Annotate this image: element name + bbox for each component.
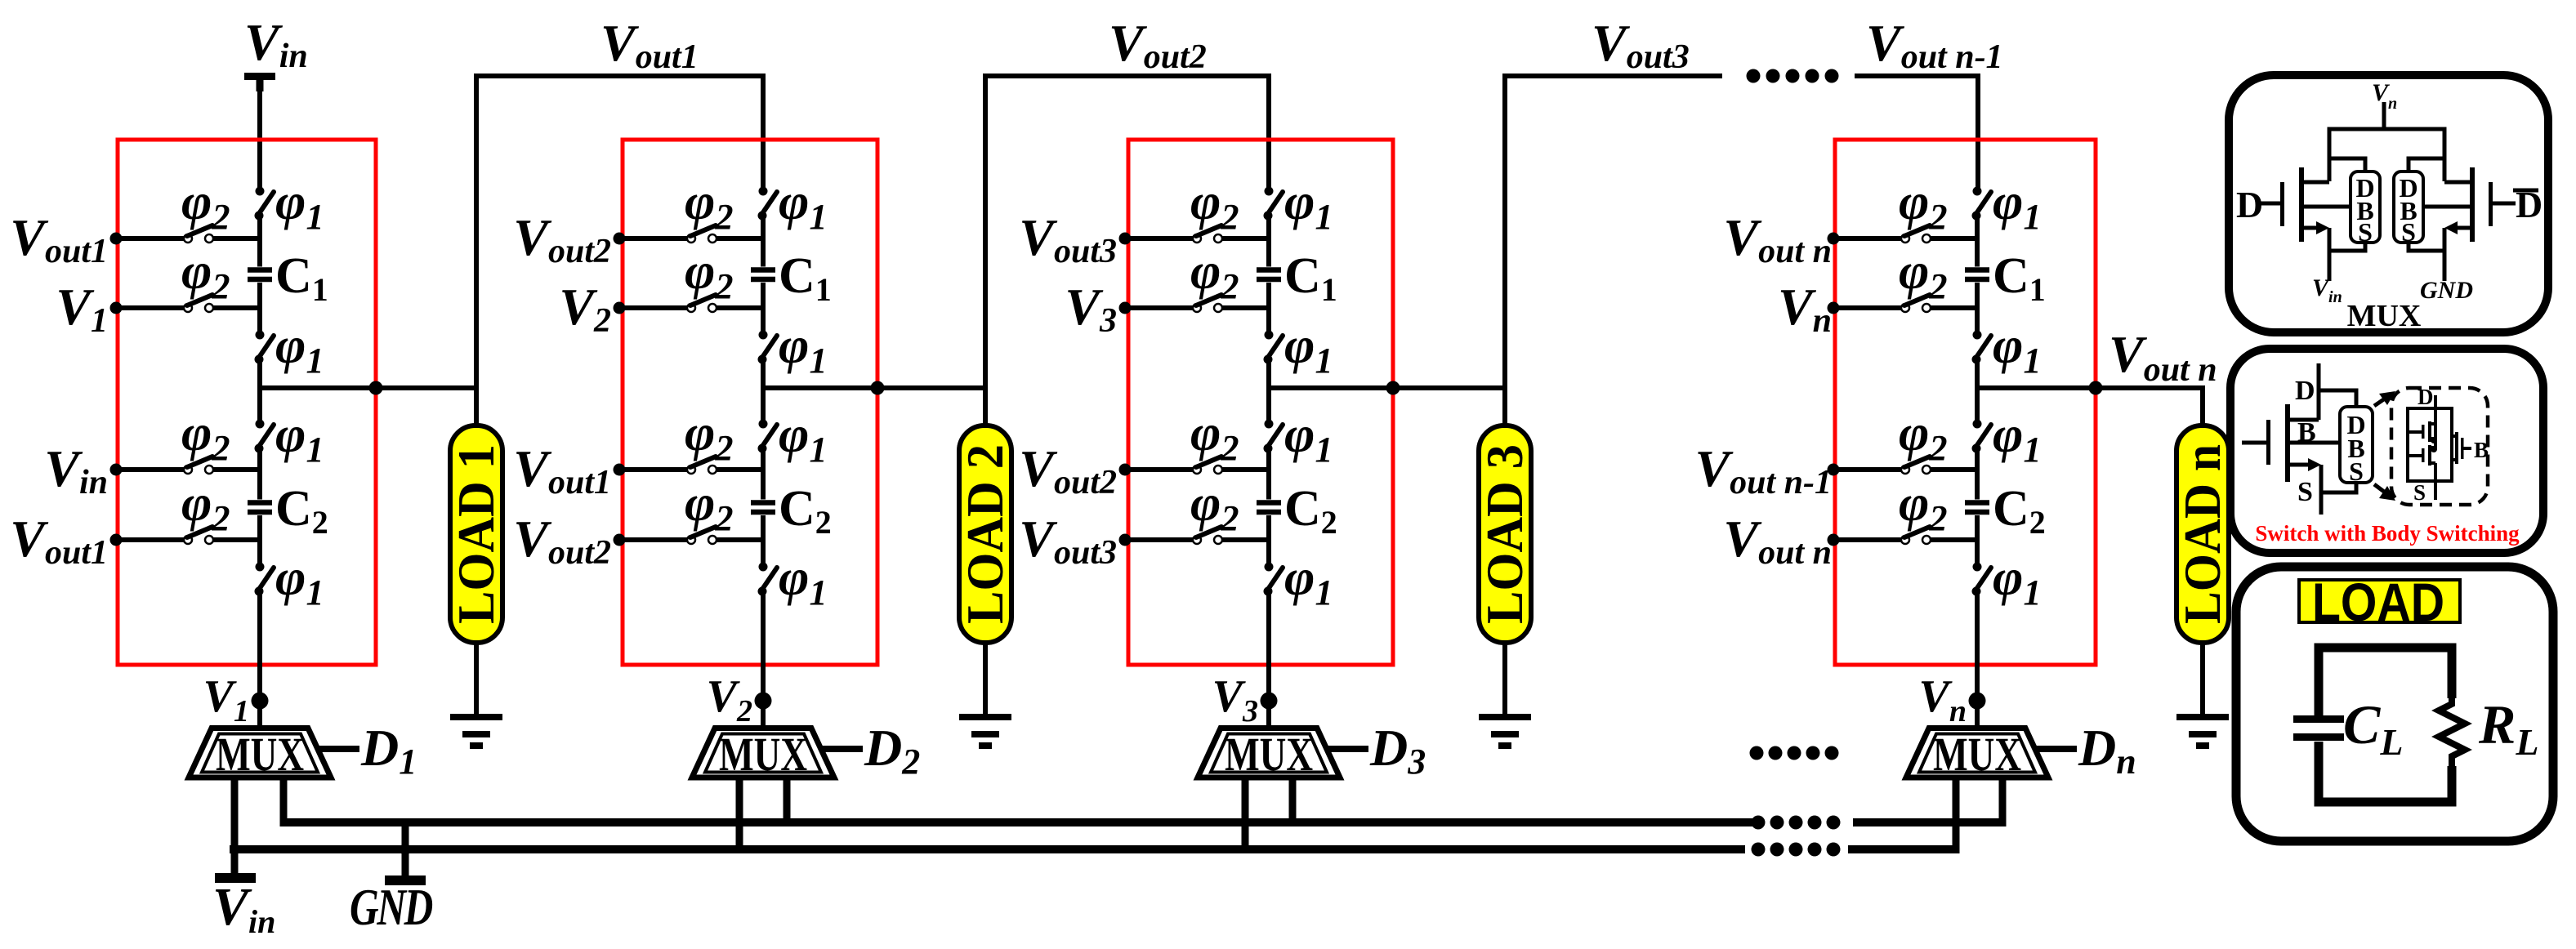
wire stage n main line below C2	[1975, 515, 1980, 567]
capacitor C2 stage 2 value label	[779, 481, 832, 541]
switch phi2 row2 stage 3 label	[1190, 242, 1239, 306]
svg-text:MUX: MUX	[719, 728, 807, 781]
svg-text:B: B	[2297, 417, 2316, 448]
switch phi1 third stage 1 label	[275, 405, 324, 470]
wire stage 3 mid node to lower switch	[1266, 388, 1271, 424]
wire stage n output node	[1977, 385, 2203, 390]
switch phi2 row3 stage 3 label	[1190, 403, 1239, 468]
switch phi2 row2 stage 1 label	[181, 242, 230, 306]
switch phi1 third stage n	[1972, 420, 1992, 453]
wire stage 2 main line to C2	[761, 448, 766, 500]
red boundary box stage n	[1835, 140, 2096, 665]
switch phi2 row3 stage 1 label	[181, 403, 230, 468]
switch phi1 bottom stage n label	[1993, 548, 2041, 613]
junction dot stage 1 output	[369, 381, 383, 395]
input label row1 stage n	[1723, 208, 1832, 270]
stage 1 MUX right leg to upper bus	[280, 779, 288, 826]
svg-text:Switch with Body Switching: Switch with Body Switching	[2255, 521, 2520, 546]
svg-text:LOAD 3: LOAD 3	[1476, 444, 1534, 624]
label GND (mux right source)	[2420, 277, 2473, 304]
switch phi1 second stage n label	[1993, 316, 2041, 381]
wire stage 1 main line to C2	[257, 448, 262, 500]
select input wire D3	[1326, 746, 1368, 752]
switch phi1 third stage n label	[1993, 405, 2041, 470]
ground under LOAD n	[2176, 643, 2229, 749]
Vin supply terminal bar	[244, 73, 275, 91]
wire stage 1 main line to mid node	[257, 359, 262, 388]
wire stage 1 main line below C1	[257, 283, 262, 335]
stage 2 MUX left leg	[736, 779, 743, 853]
net label Vout n	[2109, 325, 2217, 389]
svg-text:MUX: MUX	[1225, 728, 1313, 781]
node dot row1 stage n	[1828, 233, 1840, 245]
switch phi2 row4 stage 2 label	[685, 474, 733, 538]
switch phi2 row2 stage 2 label	[685, 242, 733, 306]
ellipsis dots top wire	[1747, 69, 1839, 83]
DBS box Q1	[2351, 172, 2380, 247]
input label row3 stage n	[1694, 439, 1832, 501]
wire stage 2 main line below C2	[761, 515, 766, 567]
wire stage 3 output node	[1269, 385, 1505, 390]
switch phi2 row3 stage 3	[1125, 457, 1269, 474]
load loop wires	[2319, 648, 2452, 802]
input label row2 stage 1	[56, 278, 108, 340]
node dot row4 stage 2	[614, 534, 626, 546]
ground under LOAD 1	[450, 643, 502, 749]
input label row4 stage 1	[10, 510, 108, 572]
svg-text:MUX: MUX	[1933, 728, 2021, 781]
svg-text:D: D	[2418, 385, 2434, 409]
mux top rail	[2329, 129, 2444, 181]
node dot row2 stage n	[1828, 302, 1840, 314]
net label Vout3	[1592, 14, 1690, 76]
switch phi2 row1 stage 3	[1125, 225, 1269, 243]
switch phi1 second stage 1	[255, 331, 275, 364]
Vin terminal bar bottom	[215, 873, 256, 883]
node label V1	[203, 671, 249, 728]
switch detail box outline	[2230, 349, 2543, 553]
DBS box Q2	[2394, 172, 2423, 247]
switch phi1 second stage 1 label	[275, 316, 324, 381]
GND drop wire	[402, 822, 409, 878]
svg-text:GND: GND	[2420, 277, 2473, 304]
stage 1 MUX left leg to Vin bar	[231, 779, 239, 875]
multiplexer MUX stage 1	[189, 728, 331, 781]
node V3 dot	[1261, 693, 1278, 710]
net label Vout2	[1109, 14, 1207, 76]
Vin label (stage 1 top)	[244, 13, 308, 75]
dashed detail box	[2391, 388, 2488, 505]
label D (Q3 drain)	[2295, 376, 2315, 406]
switch phi2 row2 stage n label	[1899, 242, 1947, 306]
node dot row2 stage 2	[614, 302, 626, 314]
stage n MUX right leg	[1999, 779, 2007, 826]
node dot row2 stage 1	[110, 302, 123, 314]
wire stage 1 output node	[260, 385, 476, 390]
switch phi1 top stage 1	[255, 187, 275, 221]
GND label	[350, 878, 432, 936]
ground under LOAD 3	[1479, 643, 1531, 749]
capacitor C1 stage 2	[751, 267, 775, 282]
capacitor C1 stage 1 value label	[275, 248, 328, 308]
wire stage 3 main line below C1	[1266, 283, 1271, 335]
Vin bottom label	[212, 877, 275, 940]
load LOAD 2	[956, 425, 1014, 643]
stage 2 MUX right leg	[784, 779, 791, 826]
label Vin (mux left source)	[2312, 274, 2342, 306]
arrow to detail top	[2374, 391, 2395, 406]
input label row4 stage 3	[1019, 510, 1117, 572]
GND terminal bar	[385, 875, 426, 885]
svg-text:LOAD 2: LOAD 2	[956, 444, 1014, 624]
net label Vout1	[600, 14, 699, 76]
wire stage 2 main line upper	[761, 216, 766, 267]
capacitor C1 stage 1	[248, 267, 272, 282]
ellipsis dots MUX level	[1750, 746, 1839, 760]
body-switch pair detail	[2408, 385, 2489, 505]
node dot row3 stage n	[1828, 464, 1840, 476]
switch phi1 second stage 3 label	[1284, 316, 1333, 381]
node V2 dot	[755, 693, 772, 710]
switch phi1 second stage 2 label	[779, 316, 827, 381]
node dot row3 stage 2	[614, 464, 626, 476]
svg-text:S: S	[2401, 217, 2416, 247]
svg-text:S: S	[2297, 477, 2313, 507]
switch phi1 top stage 2 label	[779, 172, 827, 237]
ellipsis dots lower bus	[1752, 843, 1841, 857]
switch phi2 row4 stage 1 label	[181, 474, 230, 538]
svg-text:LOAD 1: LOAD 1	[447, 444, 505, 624]
wire stage 3 main line to C2	[1266, 448, 1271, 500]
switch phi1 bottom stage 3 label	[1284, 548, 1333, 613]
node dot row4 stage 1	[110, 534, 123, 546]
switch phi1 top stage 3 label	[1284, 172, 1333, 237]
switch phi2 row4 stage 2	[619, 527, 763, 544]
capacitor C2 stage n value label	[1993, 481, 2046, 541]
caption Switch with Body Switching	[2255, 521, 2520, 546]
label Vn (mux supply)	[2372, 79, 2397, 113]
select input wire D2	[820, 746, 863, 752]
svg-text:MUX: MUX	[2347, 299, 2422, 333]
wire stage 1 main line to V1 node	[257, 591, 262, 727]
node dot row1 stage 2	[614, 233, 626, 245]
switch phi1 bottom stage n	[1972, 563, 1992, 596]
input label row1 stage 2	[513, 208, 611, 270]
junction dot stage 2 output	[871, 381, 885, 395]
input label row3 stage 1	[44, 439, 108, 501]
switch phi1 bottom stage 2	[758, 563, 778, 596]
select label Dn	[2078, 719, 2136, 782]
junction dot stage 3 output	[1386, 381, 1400, 395]
multiplexer MUX stage 3	[1198, 728, 1340, 781]
node label V3	[1212, 671, 1258, 728]
capacitor CL	[2293, 715, 2344, 741]
wire load1 drop	[474, 388, 479, 425]
wire stage 1 main line upper	[257, 216, 262, 267]
capacitor C2 stage 1	[248, 500, 272, 515]
node dot row3 stage 3	[1119, 464, 1132, 476]
switch phi2 row4 stage 3	[1125, 527, 1269, 544]
MUX detail box outline	[2229, 75, 2548, 332]
wire Vout3 (load3 going right)	[1505, 76, 1722, 425]
stage 3 MUX left leg	[1242, 779, 1249, 853]
wire stage 2 mid node to lower switch	[761, 388, 766, 424]
node Vn dot	[1969, 693, 1986, 710]
load LOAD 3	[1476, 425, 1534, 643]
wire stage 3 main line to V3 node	[1266, 591, 1271, 727]
switch phi1 third stage 3	[1264, 420, 1284, 453]
switch phi2 row3 stage 1	[116, 457, 260, 474]
select input wire D1	[317, 746, 359, 752]
mux supply wire	[2382, 102, 2386, 129]
switch phi1 bottom stage 1	[255, 563, 275, 596]
switch phi1 bottom stage 1 label	[275, 548, 324, 613]
switch phi2 row1 stage 2 label	[685, 172, 733, 237]
switch phi2 row1 stage 1 label	[181, 172, 230, 237]
lower control bus	[230, 845, 1959, 853]
input label row4 stage n	[1723, 510, 1832, 572]
upper control bus	[280, 818, 2006, 826]
capacitor C1 stage 2 value label	[779, 248, 832, 308]
wire Vin to stage1 switch	[257, 77, 262, 191]
switch phi1 second stage 3	[1264, 331, 1284, 364]
label S (Q3 source)	[2297, 477, 2313, 507]
capacitor C2 stage n	[1965, 500, 1989, 515]
switch phi2 row4 stage n	[1833, 527, 1977, 544]
switch phi2 row2 stage 2	[619, 295, 763, 312]
resistor RL	[2439, 698, 2465, 766]
input label row2 stage 2	[559, 278, 611, 340]
capacitor C2 stage 3	[1257, 500, 1281, 515]
net label Vout n-1	[1866, 14, 2003, 76]
input label row3 stage 3	[1019, 439, 1117, 501]
node V1 dot	[252, 693, 269, 710]
wire stage 1 mid node to lower switch	[257, 388, 262, 424]
input label row3 stage 2	[513, 439, 611, 501]
switch phi1 top stage 1 label	[275, 172, 324, 237]
wire stage 2 main line to mid node	[761, 359, 766, 388]
select input wire Dn	[2034, 746, 2077, 752]
wire stage 3 main line to mid node	[1266, 359, 1271, 388]
svg-text:S: S	[2413, 480, 2426, 505]
GND junction dot	[400, 844, 411, 855]
switch phi1 top stage 3	[1264, 187, 1284, 221]
switch phi1 third stage 3 label	[1284, 405, 1333, 470]
label CL	[2343, 693, 2403, 763]
transistor Q3 (body-switched FET)	[2242, 363, 2356, 515]
switch phi2 row1 stage n	[1833, 225, 1977, 243]
switch phi1 second stage n	[1972, 331, 1992, 364]
switch phi2 row3 stage 2	[619, 457, 763, 474]
wire stage n mid node to lower switch	[1975, 388, 1980, 424]
switch phi2 row2 stage n	[1833, 295, 1977, 312]
switch phi1 bottom stage 2 label	[779, 548, 827, 613]
node dot row4 stage n	[1828, 534, 1840, 546]
transistor Q2 (mux right)	[2409, 158, 2516, 281]
wire stage 3 main line below C2	[1266, 515, 1271, 567]
switch phi2 row3 stage n	[1833, 457, 1977, 474]
switch phi2 row1 stage 3 label	[1190, 172, 1239, 237]
wire load2 drop	[983, 388, 988, 425]
transistor Q1 (mux left)	[2258, 158, 2365, 281]
switch phi2 row2 stage 1	[116, 295, 260, 312]
switch phi1 bottom stage 3	[1264, 563, 1284, 596]
DBS box Q3	[2340, 407, 2373, 486]
switch phi1 top stage n label	[1993, 172, 2041, 237]
wire stage 2 main line below C1	[761, 283, 766, 335]
capacitor C1 stage n	[1965, 267, 1989, 282]
label B (Q3 body)	[2297, 417, 2316, 448]
svg-text:S: S	[2358, 217, 2373, 247]
wire stage 2 main line to V2 node	[761, 591, 766, 727]
switch phi2 row2 stage 3	[1125, 295, 1269, 312]
switch phi2 row1 stage 2	[619, 225, 763, 243]
load LOAD n	[2173, 425, 2231, 643]
red boundary box stage 1	[118, 140, 376, 665]
label RL	[2478, 693, 2538, 763]
select label D3	[1369, 719, 1426, 782]
red boundary box stage 2	[623, 140, 877, 665]
wire stage 1 main line below C2	[257, 515, 262, 567]
switch phi1 third stage 2 label	[779, 405, 827, 470]
ground under LOAD 2	[959, 643, 1011, 749]
switch phi1 third stage 2	[758, 420, 778, 453]
junction dot stage n output	[2089, 381, 2103, 395]
node label Vn	[1919, 671, 1967, 728]
node dot row1 stage 1	[110, 233, 123, 245]
switch phi1 third stage 1	[255, 420, 275, 453]
node dot row4 stage 3	[1119, 534, 1132, 546]
wire load3 drop	[1502, 388, 1507, 425]
LOAD title plate	[2299, 572, 2460, 632]
label D (mux left gate)	[2236, 184, 2263, 225]
input label row1 stage 1	[10, 208, 108, 270]
wire stage n main line upper	[1975, 216, 1980, 267]
input label row4 stage 2	[513, 510, 611, 572]
node label V2	[707, 671, 752, 728]
switch phi1 top stage n	[1972, 187, 1992, 221]
wire Vout n-1 (into stage n top)	[1855, 76, 1978, 191]
input label row1 stage 3	[1019, 208, 1117, 270]
wire Vout2 (load2 to stage3 top)	[985, 76, 1269, 425]
switch phi1 top stage 2	[758, 187, 778, 221]
arrow to detail bottom	[2374, 484, 2395, 501]
stage 3 MUX right leg	[1289, 779, 1297, 826]
node dot row3 stage 1	[110, 464, 123, 476]
node dot row2 stage 3	[1119, 302, 1132, 314]
wire stage n main line below C1	[1975, 283, 1980, 335]
svg-text:GND: GND	[350, 878, 432, 936]
svg-text:D: D	[2295, 376, 2315, 406]
wire stage 3 main line upper	[1266, 216, 1271, 267]
switch phi2 row1 stage n label	[1899, 172, 1947, 237]
svg-text:LOAD n: LOAD n	[2173, 444, 2231, 624]
node dot row1 stage 3	[1119, 233, 1132, 245]
wire stage n main line to mid node	[1975, 359, 1980, 388]
load detail box outline	[2236, 567, 2553, 841]
svg-text:B: B	[2474, 438, 2489, 462]
switch phi2 row4 stage 1	[116, 527, 260, 544]
stage n MUX left leg	[1953, 779, 1960, 853]
input label row2 stage n	[1778, 278, 1832, 340]
wire stage n main line to C2	[1975, 448, 1980, 500]
switch phi2 row1 stage 1	[116, 225, 260, 243]
svg-text:MUX: MUX	[216, 728, 304, 781]
load LOAD 1	[447, 425, 505, 643]
select label D2	[864, 719, 920, 782]
select label D1	[360, 719, 417, 782]
switch phi2 row4 stage n label	[1899, 474, 1947, 538]
capacitor C2 stage 3 value label	[1284, 481, 1337, 541]
capacitor C2 stage 1 value label	[275, 481, 328, 541]
multiplexer MUX stage 2	[692, 728, 834, 781]
red boundary box stage 3	[1128, 140, 1393, 665]
wire stage 2 output node	[763, 385, 985, 390]
ellipsis dots upper bus	[1752, 816, 1841, 830]
capacitor C2 stage 2	[751, 500, 775, 515]
switch phi1 second stage 2	[758, 331, 778, 364]
capacitor C1 stage n value label	[1993, 248, 2046, 308]
switch phi2 row3 stage 2 label	[685, 403, 733, 468]
svg-text:S: S	[2349, 457, 2364, 486]
wire Vout n to load n	[1977, 388, 2203, 425]
capacitor C1 stage 3 value label	[1284, 248, 1337, 308]
capacitor C1 stage 3	[1257, 267, 1281, 282]
svg-text:LOAD: LOAD	[2312, 572, 2444, 632]
switch phi2 row3 stage n label	[1899, 403, 1947, 468]
multiplexer MUX stage n	[1906, 728, 2048, 781]
label MUX (detail box)	[2347, 299, 2422, 333]
label D-bar (mux right gate)	[2513, 184, 2543, 225]
wire stage n main line to Vn node	[1975, 591, 1980, 727]
input label row2 stage 3	[1065, 278, 1117, 340]
svg-text:D: D	[2236, 184, 2263, 225]
wire Vout1 (load1 to stage2 top)	[476, 76, 763, 388]
switch phi2 row4 stage 3 label	[1190, 474, 1239, 538]
